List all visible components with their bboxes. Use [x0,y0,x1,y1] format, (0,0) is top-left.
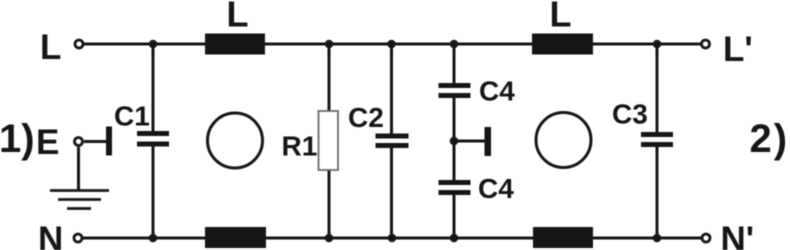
resistor R1 [319,111,339,170]
junction top rail / R1 branch [325,40,334,49]
svg-text:L: L [550,0,572,35]
junction bottom rail / R1 branch [325,234,334,243]
svg-text:C4: C4 [479,76,515,107]
node E (earth terminal) [75,138,83,146]
inductor bottom-right [533,227,593,248]
node L' (terminal) [702,40,710,48]
inductor bottom-left [205,227,266,248]
wire R1 branch lower segment [328,169,331,238]
svg-text:E: E [36,123,59,162]
wire bottom rail N to N' [83,237,701,240]
node L (terminal) [75,40,83,48]
svg-text:N: N [38,220,63,250]
wire C4 branch middle segment [453,97,456,181]
capacitor C1 [137,131,169,147]
inductor L top-right [532,34,593,55]
junction bottom rail / C3 branch [653,234,662,243]
ground symbol [50,191,109,209]
junction top rail / C1 branch [149,40,158,49]
wire C4 branch lower segment [453,194,456,238]
junction bottom rail / C2 branch [388,234,397,243]
svg-text:2): 2) [750,117,790,161]
choke core circle (right) [536,113,591,168]
svg-text:L: L [40,28,61,67]
junction top rail / C3 branch [653,40,662,49]
wire C3 branch upper segment [656,44,659,133]
svg-text:L: L [227,0,249,35]
junction top rail / C2 branch [387,40,396,49]
wire C2 branch lower segment [390,147,393,238]
node N (terminal) [74,234,82,242]
wire C4 midpoint chassis stub [454,140,485,143]
wire R1 branch upper segment [328,44,331,113]
svg-text:C3: C3 [612,99,648,130]
wire C2 branch upper segment [390,44,393,134]
junction C4 midpoint [450,137,459,146]
wire C1 branch upper segment [152,44,155,132]
junction bottom rail / C4 branch [450,234,459,243]
capacitor C2 [376,134,409,149]
svg-text:R1: R1 [282,131,318,162]
wire E to chassis bar [84,140,107,143]
svg-text:N': N' [721,220,755,250]
wire E to ground [77,147,80,190]
inductor L top-left [205,34,265,55]
svg-text:C4: C4 [478,173,514,204]
svg-text:L': L' [723,30,753,69]
junction top rail / C4 branch [450,40,459,49]
chassis bar (right, C4 midpoint) [485,127,492,156]
choke core circle (left) [208,113,263,168]
capacitor C3 [641,132,673,147]
wire C4 branch upper segment [453,44,456,84]
capacitor C4 upper [439,83,471,98]
node N' (terminal) [702,234,710,242]
svg-text:C1: C1 [114,101,150,132]
capacitor C4 lower [439,180,471,195]
svg-text:1): 1) [0,117,35,161]
junction bottom rail / C1 branch [149,234,158,243]
wire C1 branch lower segment [152,146,155,238]
wire C3 branch lower segment [656,146,659,238]
wire top rail L to L' [84,43,701,46]
svg-text:C2: C2 [348,102,384,133]
chassis bar (left, E terminal) [106,127,112,156]
